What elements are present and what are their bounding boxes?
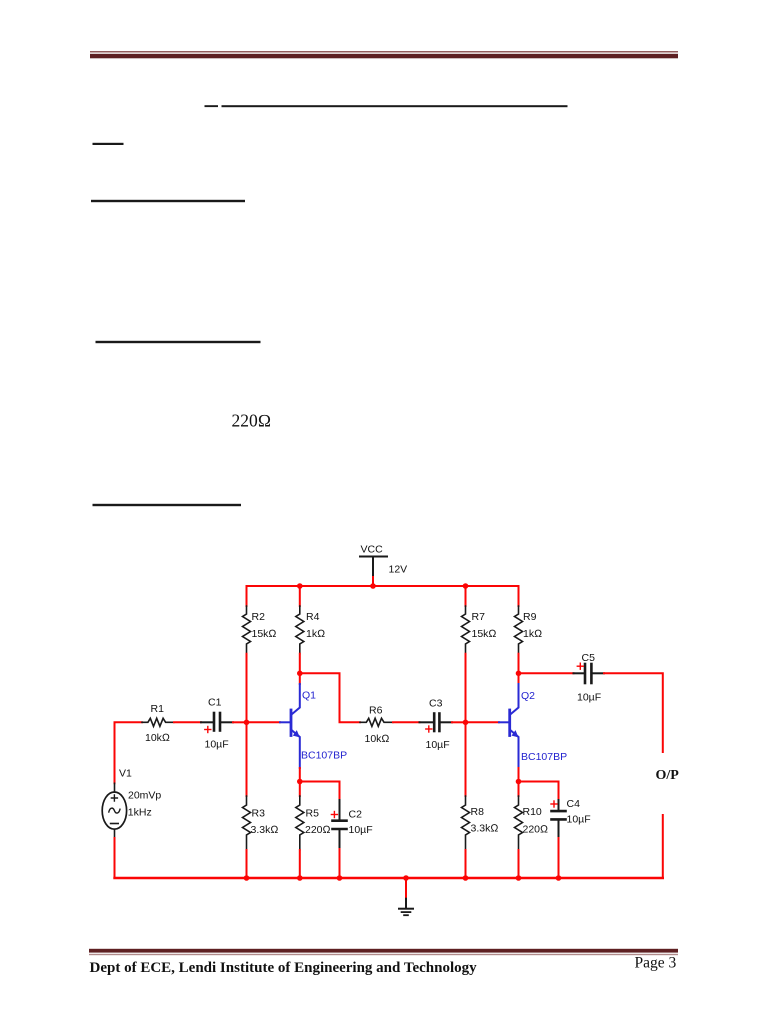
wire emitter Q2 to node	[518, 768, 520, 796]
svg-text:C2: C2	[349, 809, 363, 821]
svg-text:V1: V1	[119, 768, 132, 780]
capacitor C4	[552, 800, 566, 838]
junction dot rail at R7	[463, 583, 469, 589]
junction dot rail C4	[556, 875, 562, 881]
underline (circuit diagram)	[93, 504, 242, 506]
wire R4 top drop	[299, 586, 301, 606]
wire R8 bottom	[465, 850, 467, 878]
wire R7 top drop	[465, 586, 467, 606]
plus mark C5	[577, 663, 583, 669]
svg-text:Dept of ECE, Lendi Institute o: Dept of ECE, Lendi Institute of Engineer…	[90, 960, 478, 976]
resistor R3	[243, 796, 251, 850]
wire base node to Q2 base	[466, 721, 500, 723]
junction dot rail R5	[297, 875, 303, 881]
svg-text:3.3kΩ: 3.3kΩ	[251, 824, 279, 836]
junction dot collector Q1	[297, 671, 303, 677]
svg-text:R10: R10	[523, 806, 542, 818]
capacitor C1	[201, 713, 233, 731]
source V1	[102, 783, 126, 838]
svg-text:R7: R7	[472, 611, 486, 623]
svg-text:VCC: VCC	[361, 544, 384, 556]
wire collector Q1 stub	[299, 673, 301, 684]
heading underline dash	[205, 105, 219, 107]
svg-text:220Ω: 220Ω	[232, 411, 272, 431]
wire R9 bottom to collector node	[518, 654, 520, 674]
wire R10 bottom	[518, 850, 520, 878]
resistor R9	[515, 606, 523, 654]
wire signal node to Q1 base	[247, 721, 281, 723]
svg-text:1kΩ: 1kΩ	[306, 628, 325, 640]
plus mark C2	[331, 812, 337, 818]
wire R1 to C1	[174, 721, 201, 723]
wire R6 to C3	[393, 721, 420, 723]
wire R7 column down through base node to R8	[465, 654, 467, 796]
svg-text:3.3kΩ: 3.3kΩ	[471, 823, 499, 835]
svg-text:R5: R5	[306, 808, 320, 820]
wire top VCC rail with end drops	[247, 586, 519, 606]
short underline (aim)	[93, 143, 124, 145]
wire C2 bottom	[339, 849, 341, 878]
svg-text:15kΩ: 15kΩ	[252, 628, 277, 640]
VCC power symbol	[360, 557, 387, 578]
wire VCC stem to rail	[372, 577, 374, 586]
svg-text:R2: R2	[252, 611, 266, 623]
svg-text:O/P: O/P	[656, 768, 680, 783]
wire R2 column down through signal node to R3	[246, 654, 248, 796]
svg-text:R6: R6	[369, 705, 383, 717]
resistor R5	[296, 796, 304, 850]
junction dot rail at R4	[297, 583, 303, 589]
junction dot emitter Q1	[297, 779, 303, 785]
svg-text:220Ω: 220Ω	[523, 824, 549, 836]
svg-text:BC107BP: BC107BP	[521, 751, 567, 763]
svg-text:10kΩ: 10kΩ	[145, 732, 170, 744]
svg-text:R4: R4	[306, 611, 320, 623]
svg-text:Q2: Q2	[521, 690, 535, 702]
wire C5 to output top	[604, 673, 663, 752]
svg-text:1kHz: 1kHz	[128, 807, 152, 819]
junction dot rail at VCC	[370, 583, 376, 589]
resistor R8	[462, 796, 470, 850]
svg-text:C3: C3	[429, 698, 443, 710]
svg-text:10µF: 10µF	[205, 739, 229, 751]
svg-text:C5: C5	[582, 652, 596, 664]
junction dot rail R10	[516, 875, 522, 881]
heading underline long	[222, 105, 568, 107]
wire V1 bottom	[114, 838, 116, 878]
resistor R4	[296, 606, 304, 654]
svg-text:R8: R8	[471, 806, 485, 818]
wire ground stem red	[405, 878, 407, 899]
resistor R2	[243, 606, 251, 654]
svg-text:BC107BP: BC107BP	[301, 750, 347, 762]
junction dot signal node 1	[244, 720, 250, 726]
svg-text:10µF: 10µF	[426, 739, 450, 751]
resistor R1	[142, 718, 174, 726]
junction dot rail R8	[463, 875, 469, 881]
wire collector Q1 to C2 column to R6 row	[300, 673, 360, 722]
svg-text:1kΩ: 1kΩ	[523, 628, 542, 640]
wire collector Q2 node to C5	[519, 672, 574, 674]
junction dot rail R3	[244, 875, 250, 881]
svg-text:15kΩ: 15kΩ	[472, 628, 497, 640]
svg-text:10µF: 10µF	[349, 824, 373, 836]
wire C1 to signal node	[233, 721, 247, 723]
wire C3 to base node 2	[452, 721, 466, 723]
svg-text:20mVp: 20mVp	[128, 790, 161, 802]
plus mark C1	[205, 727, 211, 733]
junction dot rail ground	[403, 875, 409, 881]
svg-text:12V: 12V	[389, 564, 408, 576]
wire C4 bottom	[558, 838, 560, 878]
junction dot base node 2	[463, 720, 469, 726]
junction dot emitter Q2	[516, 779, 522, 785]
capacitor C2	[333, 800, 347, 849]
transistor Q2	[499, 684, 519, 768]
wire R4 bottom to collector node	[299, 654, 301, 674]
underline (apparatus)	[91, 200, 245, 202]
capacitor C3	[420, 714, 453, 732]
wire input node: V1 column and to R1	[115, 722, 143, 783]
resistor R10	[515, 796, 523, 850]
svg-text:10µF: 10µF	[567, 814, 591, 826]
wire R5 bottom	[299, 850, 301, 878]
wire emitter Q1 to node	[299, 768, 301, 796]
wire bottom ground rail	[115, 877, 663, 879]
svg-text:R3: R3	[252, 808, 266, 820]
svg-text:10kΩ: 10kΩ	[365, 733, 390, 745]
wire collector Q2 stub	[518, 673, 520, 684]
wire output bottom	[662, 815, 664, 878]
wire emitter node 2 to C4	[519, 782, 559, 801]
svg-text:220Ω: 220Ω	[305, 824, 331, 836]
junction dot rail C2	[337, 875, 343, 881]
footer thick-thin rule	[89, 949, 678, 955]
wire R3 bottom	[246, 850, 248, 878]
transistor Q1	[280, 684, 300, 768]
svg-text:C4: C4	[567, 798, 581, 810]
resistor R7	[462, 606, 470, 654]
underline (components)	[96, 341, 261, 343]
svg-text:Q1: Q1	[302, 690, 316, 702]
svg-text:10µF: 10µF	[577, 692, 601, 704]
page top thin-thick rule	[90, 51, 678, 58]
plus mark C3	[426, 726, 432, 732]
junction dot collector Q2	[516, 671, 522, 677]
svg-text:R9: R9	[523, 611, 537, 623]
wire emitter node to C2	[300, 782, 340, 801]
ground symbol	[399, 899, 413, 916]
svg-text:Page 3: Page 3	[635, 955, 677, 972]
plus mark C4	[551, 801, 557, 807]
svg-text:R1: R1	[151, 703, 165, 715]
svg-text:C1: C1	[208, 697, 222, 709]
capacitor C5	[574, 664, 605, 683]
resistor R6	[360, 718, 393, 726]
